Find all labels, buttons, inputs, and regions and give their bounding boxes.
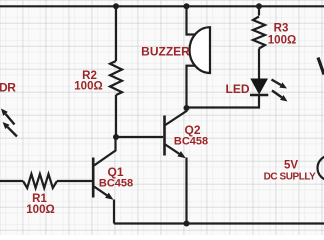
LED D1 triangle xyxy=(252,79,267,93)
junction dot: top rail / R3 xyxy=(256,3,262,9)
label R3 xyxy=(274,23,289,35)
wire: node to Q2 base xyxy=(116,136,163,138)
transistor Q1 collector xyxy=(94,138,116,166)
label 5V xyxy=(284,160,298,172)
value label 100Ω (R1) xyxy=(26,204,54,216)
wire: R2 down to Q1 collector node xyxy=(115,95,117,137)
value label BC458 (Q1) xyxy=(99,178,133,190)
wire: Q2 emitter down to ground rail xyxy=(185,158,187,224)
label LDR (partially cut at left edge) xyxy=(0,81,16,95)
wire: R3 down to LED anode xyxy=(258,49,260,80)
wire: Q1 emitter down to ground rail xyxy=(113,200,115,224)
junction dot: top rail / buzzer xyxy=(184,3,190,9)
label R2 xyxy=(82,70,97,82)
label R1 xyxy=(32,193,47,205)
resistor R1 xyxy=(23,174,57,188)
resistor R3 xyxy=(253,17,265,49)
svg-text:100Ω: 100Ω xyxy=(268,35,296,47)
label Q1 xyxy=(107,165,123,179)
transistor Q1 base bar xyxy=(92,158,95,198)
svg-text:DC SUPLLY: DC SUPLLY xyxy=(264,172,316,183)
node: Q2 collector / buzzer / LED tee xyxy=(184,105,190,111)
wire: LED cathode down and left to Q2 collector node xyxy=(187,95,260,108)
svg-text:BC458: BC458 xyxy=(174,136,208,148)
battery/source circle 5V (cut at right edge) xyxy=(318,156,324,181)
transistor Q2 base bar xyxy=(163,116,166,156)
label Q2 xyxy=(184,123,200,137)
label DC SUPLLY xyxy=(264,172,316,183)
LED light arrow 2 xyxy=(272,91,288,102)
junction dot: top rail / R2 xyxy=(113,3,119,9)
transistor Q2 collector xyxy=(165,108,186,125)
wire: LDR/R1 horizontal from left edge xyxy=(0,180,23,182)
svg-text:5V: 5V xyxy=(284,160,298,172)
LDR light arrow 1 xyxy=(1,109,15,125)
junction dot: ground rail / Q2 emitter xyxy=(184,221,190,227)
svg-text:LDR: LDR xyxy=(0,81,16,95)
LDR light arrow 2 xyxy=(3,122,18,137)
value label BC458 (Q2) xyxy=(174,136,208,148)
label LED xyxy=(226,82,250,96)
svg-text:LED: LED xyxy=(226,82,250,96)
label BUZZER xyxy=(141,45,190,59)
wire: R1 to Q1 base xyxy=(57,180,93,182)
svg-text:100Ω: 100Ω xyxy=(26,204,54,216)
partial glyph at right edge (cropped symbol) xyxy=(318,58,324,75)
value label 100Ω (R2) xyxy=(74,81,102,93)
transistor Q1 emitter with arrow xyxy=(94,187,114,200)
node: Q1 collector / Q2 base tee xyxy=(113,134,119,140)
wire: top +V rail xyxy=(0,5,324,7)
value label 100Ω (R3) xyxy=(268,35,296,47)
svg-text:100Ω: 100Ω xyxy=(74,81,102,93)
wire: top rail down to buzzer top pin xyxy=(185,6,187,35)
svg-text:R3: R3 xyxy=(274,23,289,35)
wire: top rail down to R2 xyxy=(115,6,117,61)
LED D1 cathode bar xyxy=(250,94,268,97)
svg-text:BUZZER: BUZZER xyxy=(141,45,190,59)
LED light arrow 1 xyxy=(272,80,288,89)
buzzer BZ1 (half-disc) xyxy=(187,27,211,73)
transistor Q2 emitter with arrow xyxy=(165,145,186,159)
svg-text:BC458: BC458 xyxy=(99,178,133,190)
wire: buzzer bottom pin down to Q2 collector node xyxy=(185,65,187,108)
wire: bottom ground rail xyxy=(114,222,324,224)
wire: top rail down to R3 xyxy=(258,6,260,15)
resistor R2 xyxy=(110,61,122,95)
